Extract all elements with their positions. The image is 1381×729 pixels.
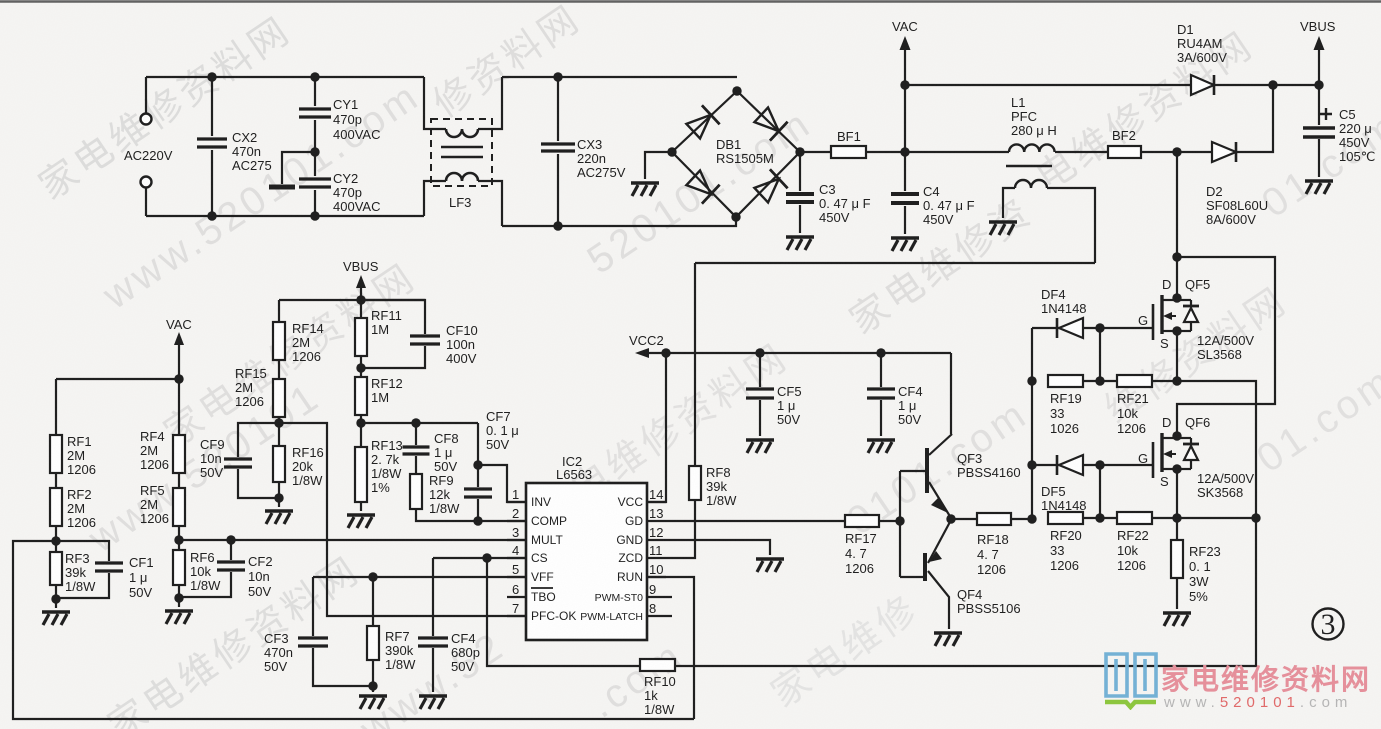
- svg-text:CF5: CF5: [777, 384, 802, 399]
- svg-text:1206: 1206: [845, 561, 874, 576]
- capacitor CX3: [541, 72, 626, 230]
- svg-text:1M: 1M: [371, 322, 389, 337]
- diode D1 RU4AM: [1177, 22, 1319, 95]
- wire - CX3 bottom rail: [502, 217, 736, 226]
- svg-text:RF19: RF19: [1050, 391, 1082, 406]
- svg-text:S: S: [1160, 336, 1169, 351]
- capacitor CF7: [464, 409, 519, 526]
- svg-text:4. 7: 4. 7: [845, 546, 867, 561]
- svg-text:10n: 10n: [200, 451, 222, 466]
- svg-text:1026: 1026: [1050, 421, 1079, 436]
- wire - VAC to D1 top rail: [905, 84, 1191, 86]
- svg-text:50V: 50V: [434, 459, 457, 474]
- pin 5 VFF: [507, 562, 554, 584]
- svg-text:280 μ H: 280 μ H: [1011, 123, 1057, 138]
- pin 11 ZCD: [618, 543, 666, 565]
- wire - GND pin 12 to ground: [666, 540, 784, 572]
- svg-text:220 μ: 220 μ: [1339, 121, 1372, 136]
- svg-text:2M: 2M: [67, 448, 85, 463]
- capacitor CF10: [361, 300, 478, 368]
- svg-text:D2: D2: [1206, 184, 1223, 199]
- capacitor CF4 680p: [418, 558, 480, 692]
- svg-text:RF11: RF11: [371, 308, 402, 323]
- svg-text:SK3568: SK3568: [1197, 485, 1243, 500]
- svg-text:COMP: COMP: [531, 514, 567, 528]
- svg-text:12: 12: [649, 525, 663, 540]
- svg-text:PWM-ST0: PWM-ST0: [595, 592, 644, 604]
- svg-text:3: 3: [512, 525, 519, 540]
- transistor QF5 MOSFET: [1138, 277, 1254, 362]
- pin 1 INV: [507, 487, 551, 509]
- svg-text:1 μ: 1 μ: [777, 398, 795, 413]
- svg-text:QF4: QF4: [957, 587, 982, 602]
- resistor RF9: [410, 473, 478, 521]
- resistor RF15: [235, 360, 285, 423]
- svg-text:CF10: CF10: [446, 323, 478, 338]
- bridge rectifier DB1 RS1505M: [667, 86, 804, 221]
- svg-text:400VAC: 400VAC: [333, 127, 380, 142]
- svg-text:1: 1: [512, 487, 519, 502]
- pin 12 GND: [616, 525, 666, 547]
- svg-text:50V: 50V: [777, 412, 800, 427]
- wire - ZCD aux winding line: [695, 262, 1095, 264]
- svg-text:RF20: RF20: [1050, 528, 1082, 543]
- svg-text:0. 1: 0. 1: [1189, 559, 1211, 574]
- svg-text:2M: 2M: [140, 443, 158, 458]
- capacitor C3: [786, 152, 871, 250]
- pin 4 CS: [507, 543, 548, 565]
- svg-text:680p: 680p: [451, 645, 480, 660]
- svg-text:2M: 2M: [140, 497, 158, 512]
- resistor RF8 (ZCD): [666, 263, 737, 558]
- svg-text:450V: 450V: [1339, 135, 1370, 150]
- svg-text:C4: C4: [923, 184, 940, 199]
- svg-text:D1: D1: [1177, 22, 1194, 37]
- svg-text:RF1: RF1: [67, 434, 92, 449]
- svg-text:RF6: RF6: [190, 550, 215, 565]
- pin 6 TBO: [507, 582, 556, 604]
- svg-text:50V: 50V: [200, 465, 223, 480]
- svg-text:VBUS: VBUS: [1300, 19, 1336, 34]
- svg-text:RF13: RF13: [371, 438, 403, 453]
- svg-text:1k: 1k: [644, 688, 658, 703]
- svg-text:CF4: CF4: [451, 631, 476, 646]
- svg-text:RUN: RUN: [617, 570, 643, 584]
- svg-text:CF7: CF7: [486, 409, 511, 424]
- svg-text:2M: 2M: [67, 501, 85, 516]
- svg-text:G: G: [1138, 313, 1148, 328]
- border top edge: [0, 0, 1381, 3]
- svg-text:2M: 2M: [235, 380, 253, 395]
- resistor RF12: [355, 376, 403, 423]
- capacitor CY2: [299, 152, 380, 221]
- svg-text:1206: 1206: [977, 562, 1006, 577]
- svg-text:DB1: DB1: [716, 137, 741, 152]
- svg-text:BF1: BF1: [837, 129, 861, 144]
- svg-text:3W: 3W: [1189, 574, 1209, 589]
- svg-text:9: 9: [649, 582, 656, 597]
- svg-text:50V: 50V: [264, 659, 287, 674]
- svg-text:ZCD: ZCD: [618, 551, 643, 565]
- ground below RF6: [165, 598, 193, 624]
- svg-text:AC275: AC275: [232, 158, 272, 173]
- svg-text:10: 10: [649, 562, 663, 577]
- svg-text:33: 33: [1050, 543, 1064, 558]
- resistor RF21: [1100, 375, 1177, 436]
- svg-text:8: 8: [649, 601, 656, 616]
- svg-text:VCC2: VCC2: [629, 333, 664, 348]
- resistor RF6: [173, 550, 221, 603]
- net VBUS arrow lower: [343, 259, 379, 318]
- svg-text:5: 5: [512, 562, 519, 577]
- op-amp IC2 L6563 body: [526, 454, 647, 640]
- net VAC arrow: [892, 19, 918, 157]
- svg-text:QF5: QF5: [1185, 277, 1210, 292]
- resistor RF14: [273, 300, 324, 364]
- svg-text:RF4: RF4: [140, 429, 165, 444]
- svg-text:LF3: LF3: [449, 195, 471, 210]
- svg-text:13: 13: [649, 506, 663, 521]
- svg-text:CF8: CF8: [434, 431, 459, 446]
- svg-text:50V: 50V: [248, 584, 271, 599]
- wire - RF10 to MOSFET source rail: [675, 518, 1256, 666]
- svg-text:12A/500V: 12A/500V: [1197, 471, 1254, 486]
- diode DF5 1N4148: [1032, 455, 1105, 513]
- svg-text:1 μ: 1 μ: [434, 445, 452, 460]
- svg-text:RF22: RF22: [1117, 528, 1149, 543]
- AC input terminal bottom: [141, 177, 152, 217]
- svg-text:0. 1 μ: 0. 1 μ: [486, 423, 519, 438]
- svg-text:C3: C3: [819, 182, 836, 197]
- ground below CF4: [419, 696, 447, 709]
- pin 2 COMP: [507, 506, 567, 528]
- svg-text:1206: 1206: [292, 349, 321, 364]
- svg-text:1M: 1M: [371, 390, 389, 405]
- svg-text:33: 33: [1050, 406, 1064, 421]
- svg-text:RF18: RF18: [977, 532, 1009, 547]
- pin 3 MULT: [507, 525, 563, 547]
- svg-text:D: D: [1162, 415, 1171, 430]
- svg-text:1206: 1206: [67, 462, 96, 477]
- wire - boost node riser: [1172, 152, 1181, 300]
- svg-text:CF1: CF1: [129, 555, 154, 570]
- resistor RF19: [1048, 375, 1105, 436]
- wire - CS sense drop: [487, 558, 640, 666]
- svg-text:AC220V: AC220V: [124, 148, 173, 163]
- resistor RF16: [273, 423, 324, 503]
- svg-text:7: 7: [512, 601, 519, 616]
- svg-text:GND: GND: [616, 533, 643, 547]
- svg-text:470p: 470p: [333, 185, 362, 200]
- svg-text:450V: 450V: [923, 212, 954, 227]
- ground below RF7: [359, 686, 387, 709]
- wire - VFF row to pin 5: [313, 572, 526, 581]
- svg-text:CX2: CX2: [232, 130, 257, 145]
- resistor RF7: [367, 577, 416, 691]
- svg-text:470n: 470n: [232, 144, 261, 159]
- resistor RF11: [355, 308, 402, 356]
- node CY1-CY2 midpoint with earth: [269, 147, 320, 187]
- svg-text:1/8W: 1/8W: [385, 657, 416, 672]
- svg-text:QF6: QF6: [1185, 415, 1210, 430]
- svg-text:1206: 1206: [140, 511, 169, 526]
- svg-text:50V: 50V: [486, 437, 509, 452]
- svg-text:RF15: RF15: [235, 366, 267, 381]
- wire - AC input top rail: [146, 76, 424, 78]
- svg-text:0. 47 μ F: 0. 47 μ F: [819, 196, 871, 211]
- ground below RF16: [265, 498, 293, 524]
- ground below RF23: [1163, 613, 1191, 626]
- L1 aux (ZCD) winding: [989, 180, 1095, 263]
- svg-text:CY2: CY2: [333, 171, 358, 186]
- svg-text:DF4: DF4: [1041, 287, 1066, 302]
- resistor RF5: [140, 483, 185, 526]
- capacitor CF8: [403, 423, 459, 474]
- net VAC arrow lower: [166, 317, 192, 550]
- resistor RF4: [140, 429, 185, 473]
- pin 9 PWM-ST0: [595, 582, 672, 604]
- svg-text:RF7: RF7: [385, 629, 410, 644]
- svg-text:10k: 10k: [1117, 543, 1138, 558]
- capacitor CY1: [299, 72, 380, 152]
- svg-text:RF3: RF3: [65, 551, 90, 566]
- wire - MULT row to pin 3: [179, 539, 526, 541]
- svg-text:PBSS4160: PBSS4160: [957, 465, 1021, 480]
- node feedback divider INV: [356, 418, 365, 427]
- svg-text:PFC: PFC: [1011, 109, 1037, 124]
- svg-text:VAC: VAC: [166, 317, 192, 332]
- pin 13 GD: [625, 506, 666, 528]
- resistor RF13: [355, 423, 403, 511]
- svg-text:INV: INV: [531, 495, 551, 509]
- pin 10 RUN: [617, 562, 666, 584]
- wire - gate drive rail: [1027, 328, 1036, 524]
- wire - INV node row: [361, 418, 478, 427]
- svg-text:5%: 5%: [1189, 589, 1208, 604]
- svg-text:MULT: MULT: [531, 533, 563, 547]
- svg-text:11: 11: [649, 543, 663, 558]
- svg-text:50V: 50V: [129, 585, 152, 600]
- svg-text:100n: 100n: [446, 337, 475, 352]
- net VBUS arrow top: [1300, 19, 1336, 90]
- net VCC2 arrow: [629, 333, 951, 358]
- wire - RUN drop to bottom rail: [647, 577, 694, 719]
- svg-text:CY1: CY1: [333, 97, 358, 112]
- svg-text:105℃: 105℃: [1339, 149, 1375, 164]
- label AC220V: [124, 148, 173, 163]
- page number 3 circled: [1313, 608, 1344, 641]
- svg-text:2. 7k: 2. 7k: [371, 452, 400, 467]
- svg-text:1/8W: 1/8W: [644, 702, 675, 717]
- resistor RF20: [1048, 512, 1105, 573]
- svg-text:450V: 450V: [819, 210, 850, 225]
- node RF15/RF16 junction: [274, 418, 283, 427]
- capacitor CF4 (VCC2): [867, 348, 923, 453]
- svg-text:AC275V: AC275V: [577, 165, 626, 180]
- svg-text:1206: 1206: [1050, 558, 1079, 573]
- svg-text:RF16: RF16: [292, 445, 324, 460]
- svg-text:1/8W: 1/8W: [706, 493, 737, 508]
- svg-text:RF23: RF23: [1189, 544, 1221, 559]
- fuse BF2: [1108, 128, 1177, 158]
- svg-text:G: G: [1138, 451, 1148, 466]
- svg-text:8A/600V: 8A/600V: [1206, 212, 1256, 227]
- svg-text:RF14: RF14: [292, 321, 324, 336]
- pin 14 VCC: [618, 487, 666, 509]
- diode D2 SF08L60U: [1172, 86, 1273, 227]
- svg-text:1206: 1206: [1117, 558, 1146, 573]
- svg-text:CS: CS: [531, 551, 548, 565]
- svg-text:12k: 12k: [429, 487, 450, 502]
- pin 7 PFC-OK: [507, 601, 576, 623]
- svg-text:3A/600V: 3A/600V: [1177, 50, 1227, 65]
- svg-text:1/8W: 1/8W: [429, 501, 460, 516]
- wire - CX3 top rail: [502, 76, 737, 78]
- wire - COMP row to pin 2: [478, 520, 526, 522]
- svg-text:CX3: CX3: [577, 137, 602, 152]
- svg-text:RF2: RF2: [67, 487, 92, 502]
- svg-text:CF3: CF3: [264, 631, 289, 646]
- svg-text:RF21: RF21: [1117, 391, 1149, 406]
- svg-text:RF17: RF17: [845, 531, 877, 546]
- svg-text:CF4: CF4: [898, 384, 923, 399]
- resistor RF23 shunt: [1171, 518, 1221, 609]
- capacitor CF3: [264, 577, 373, 686]
- svg-text:PFC-OK: PFC-OK: [531, 609, 576, 623]
- wire - VCC2 to pin 14: [647, 353, 666, 502]
- ground at bridge negative node: [631, 152, 672, 196]
- transistor QF3 PBSS4160 NPN: [900, 434, 1021, 521]
- svg-text:20k: 20k: [292, 459, 313, 474]
- svg-text:1206: 1206: [235, 394, 264, 409]
- svg-text:RF9: RF9: [429, 473, 454, 488]
- capacitor CF9: [200, 423, 279, 498]
- svg-text:VFF: VFF: [531, 570, 554, 584]
- svg-text:10n: 10n: [248, 569, 270, 584]
- svg-text:CF2: CF2: [248, 554, 273, 569]
- svg-text:SL3568: SL3568: [1197, 347, 1242, 362]
- svg-text:L1: L1: [1011, 95, 1025, 110]
- resistor RF22: [1100, 512, 1177, 573]
- svg-text:2: 2: [512, 506, 519, 521]
- svg-text:50V: 50V: [898, 412, 921, 427]
- svg-text:12A/500V: 12A/500V: [1197, 333, 1254, 348]
- svg-text:VBUS: VBUS: [343, 259, 379, 274]
- svg-text:1 μ: 1 μ: [898, 398, 916, 413]
- svg-text:390k: 390k: [385, 643, 414, 658]
- svg-text:RF12: RF12: [371, 376, 403, 391]
- resistor RF10: [640, 659, 676, 717]
- resistor RF18: [951, 513, 1032, 577]
- svg-text:6: 6: [512, 582, 519, 597]
- wire - QF6 source to source row: [1172, 466, 1260, 523]
- capacitor CX2: [197, 72, 272, 220]
- svg-text:470n: 470n: [264, 645, 293, 660]
- capacitor CF2: [179, 535, 273, 599]
- svg-text:RF10: RF10: [644, 674, 676, 689]
- resistor RF1: [50, 379, 96, 477]
- diode DF4 1N4148: [1032, 287, 1105, 338]
- svg-text:4: 4: [512, 543, 519, 558]
- svg-text:4. 7: 4. 7: [977, 547, 999, 562]
- common-mode choke LF3: [424, 77, 502, 226]
- svg-text:C5: C5: [1339, 107, 1356, 122]
- svg-text:470p: 470p: [333, 112, 362, 127]
- node RF11/RF12 junction: [356, 356, 365, 377]
- svg-text:1/8W: 1/8W: [292, 473, 323, 488]
- watermark site name red: [1161, 658, 1371, 698]
- svg-text:PBSS5106: PBSS5106: [957, 601, 1021, 616]
- svg-text:1/8W: 1/8W: [371, 466, 402, 481]
- svg-text:1 μ: 1 μ: [129, 570, 147, 585]
- wire - AC input bottom rail: [146, 215, 424, 217]
- node RF2/RF3 junction: [51, 536, 60, 545]
- wire - VBUS rail to RF14 and CF10: [279, 299, 425, 301]
- resistor RF17: [666, 515, 905, 576]
- svg-text:10k: 10k: [190, 564, 211, 579]
- svg-text:14: 14: [649, 487, 663, 502]
- wire - INV jog to pin 1: [478, 465, 526, 502]
- svg-text:1206: 1206: [1117, 421, 1146, 436]
- svg-text:1/8W: 1/8W: [190, 578, 221, 593]
- resistor RF2: [50, 473, 96, 541]
- capacitor C5 electrolytic: [1303, 85, 1375, 194]
- svg-text:SF08L60U: SF08L60U: [1206, 198, 1268, 213]
- wire - VAC node to RF1 column: [56, 378, 179, 380]
- svg-text:RS1505M: RS1505M: [716, 151, 774, 166]
- svg-text:TBO: TBO: [531, 590, 556, 604]
- svg-text:BF2: BF2: [1112, 128, 1136, 143]
- svg-text:39k: 39k: [65, 565, 86, 580]
- wire - PFC-OK link from RF15/RF16 node: [279, 423, 526, 616]
- svg-text:GD: GD: [625, 514, 643, 528]
- watermark site url: [1164, 694, 1352, 711]
- ground below RF13: [347, 515, 375, 528]
- transistor QF6 MOSFET: [1138, 415, 1254, 500]
- svg-text:QF3: QF3: [957, 451, 982, 466]
- svg-text:50V: 50V: [451, 659, 474, 674]
- svg-text:S: S: [1160, 474, 1169, 489]
- wire - QF3 collector to VCC2: [950, 353, 952, 434]
- svg-text:400V: 400V: [446, 351, 477, 366]
- svg-text:220n: 220n: [577, 151, 606, 166]
- svg-text:VCC: VCC: [618, 495, 644, 509]
- wire - QF5 gate link: [1100, 328, 1152, 381]
- capacitor CF5: [746, 348, 802, 453]
- svg-text:1/8W: 1/8W: [65, 579, 96, 594]
- svg-text:VAC: VAC: [892, 19, 918, 34]
- wire - CS row to pin 4: [433, 553, 526, 562]
- svg-text:1%: 1%: [371, 480, 390, 495]
- svg-text:0. 47 μ F: 0. 47 μ F: [923, 198, 975, 213]
- fuse BF1: [800, 129, 905, 158]
- svg-text:1N4148: 1N4148: [1041, 498, 1087, 513]
- svg-text:39k: 39k: [706, 479, 727, 494]
- node driver output: [946, 514, 955, 523]
- capacitor CF1: [56, 541, 154, 600]
- svg-text:1N4148: 1N4148: [1041, 301, 1087, 316]
- wire - QF6 gate link: [1100, 465, 1152, 518]
- svg-text:1206: 1206: [140, 457, 169, 472]
- transistor QF4 PBSS5106 PNP: [900, 520, 1021, 629]
- svg-text:3: 3: [1321, 608, 1336, 641]
- capacitor C4: [891, 152, 975, 251]
- svg-text:PWM-LATCH: PWM-LATCH: [580, 611, 643, 623]
- ground below QF4: [934, 633, 962, 646]
- svg-text:2M: 2M: [292, 335, 310, 350]
- AC input terminal top: [141, 77, 152, 125]
- wire - drain link to QF6: [1177, 257, 1275, 437]
